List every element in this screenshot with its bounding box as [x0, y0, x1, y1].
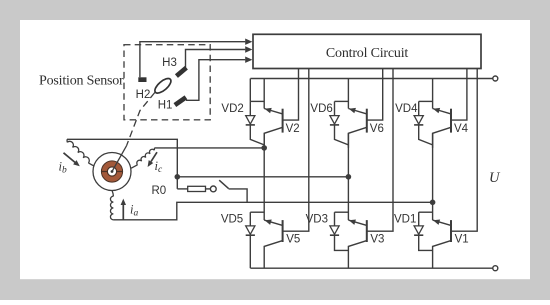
transistor V6 emitter arrow	[349, 108, 356, 113]
position sensor dashed box	[124, 45, 210, 120]
wire phase c from La	[113, 202, 432, 220]
transistor V4 emitter arrow	[433, 108, 440, 113]
svg-text:V6: V6	[370, 123, 384, 135]
motor shaft line	[112, 146, 127, 172]
winding Lb	[66, 139, 68, 142]
wire H3 to control circuit	[186, 50, 246, 68]
winding Lc	[153, 148, 155, 150]
diode VD5	[246, 226, 255, 234]
junction dot phase b	[175, 174, 181, 180]
hall sensor H2	[138, 77, 146, 82]
transistor V6 emitter diagonal	[348, 109, 366, 114]
wire collector feed V2	[263, 79, 265, 109]
diode VD3	[330, 226, 339, 234]
wire H1 to control circuit	[186, 60, 245, 101]
transistor V3 collector diagonal	[348, 220, 366, 225]
transistor V4 emitter diagonal	[433, 109, 451, 114]
transistor V1 collector diagonal	[433, 220, 451, 225]
wire switch to phase c	[229, 189, 248, 202]
hall sensor H3	[175, 66, 188, 78]
wire phase b line	[177, 176, 348, 178]
transistor V5 bar	[282, 220, 284, 242]
transistor V5 base wire	[283, 69, 309, 232]
transistor V5 emitter diagonal	[264, 241, 282, 269]
svg-text:H1: H1	[158, 100, 173, 112]
wire collector feed V4	[432, 79, 434, 109]
svg-text:V2: V2	[286, 123, 300, 135]
transistor V4 collector diagonal	[433, 127, 451, 148]
winding La	[112, 190, 113, 196]
diode VD2	[246, 116, 255, 124]
svg-text:VD6: VD6	[310, 103, 332, 115]
diode VD4 cathode wire	[419, 125, 433, 145]
wire link top VD6	[335, 100, 349, 102]
transistor V1 emitter diagonal	[433, 241, 451, 269]
transistor V1 collector arrow	[433, 219, 440, 224]
arrow into control circuit pin1	[245, 39, 252, 45]
wire to R0	[177, 188, 187, 190]
positive rail	[250, 78, 492, 80]
wire link top VD3	[335, 211, 349, 213]
junction dot phase 3	[430, 200, 436, 206]
phase column 2	[347, 133, 349, 220]
wire link top VD2	[250, 100, 264, 102]
motor rotor ring	[104, 164, 119, 179]
phase column 1	[263, 133, 265, 220]
svg-text:VD1: VD1	[394, 214, 416, 226]
motor stator circle	[93, 153, 131, 191]
svg-text:Control Circuit: Control Circuit	[326, 46, 408, 61]
transistor V2 base wire	[283, 69, 299, 121]
wire rail corner to diode VD2	[249, 79, 251, 102]
current arrow ib	[64, 153, 77, 164]
transistor V1 bar	[450, 220, 452, 242]
wire collector feed V6	[347, 79, 349, 109]
diode VD4 anode wire	[418, 101, 420, 116]
svg-text:H3: H3	[162, 57, 177, 69]
transistor V5 collector diagonal	[264, 220, 282, 225]
transistor V6 collector diagonal	[348, 127, 366, 148]
transistor V6 base wire	[367, 69, 383, 121]
diode VD3 anode wire	[334, 212, 336, 226]
diode VD6 cathode wire	[335, 125, 349, 145]
diode VD6 anode wire	[334, 101, 336, 116]
junction dot phase 2	[346, 174, 352, 180]
transistor V3 emitter diagonal	[348, 241, 366, 269]
junction dot phase 1	[261, 145, 267, 151]
hall sensor H1	[174, 95, 188, 107]
diode VD1 anode wire	[418, 212, 420, 226]
switch blade	[219, 180, 228, 188]
svg-text:H2: H2	[136, 89, 151, 101]
transistor V2 emitter arrow	[265, 108, 272, 113]
transistor V3 base wire	[367, 69, 393, 232]
diode VD5 anode wire	[249, 212, 251, 226]
svg-text:V4: V4	[454, 123, 469, 135]
wire phase b top	[67, 139, 177, 189]
transistor V6 bar	[366, 109, 368, 133]
switch contact circle	[210, 186, 216, 192]
svg-text:Position Sensor: Position Sensor	[39, 73, 124, 88]
svg-text:V5: V5	[286, 234, 300, 246]
motor rotor mid line	[101, 171, 122, 173]
current arrow ia	[122, 204, 124, 220]
control circuit box U0	[253, 34, 481, 68]
terminal top	[493, 76, 498, 81]
resistor R0	[188, 186, 206, 191]
svg-text:VD2: VD2	[221, 103, 243, 115]
diode VD4	[414, 116, 423, 124]
wire link top VD5	[250, 211, 264, 213]
wire link top VD1	[419, 211, 433, 213]
arrow into control circuit pin3	[245, 57, 252, 63]
arrow into control circuit pin2	[245, 46, 252, 52]
transistor V2 bar	[282, 109, 284, 133]
rotor shaft dashed line	[127, 93, 155, 146]
diode VD1 cathode wire	[419, 236, 433, 251]
wire link top VD4	[419, 100, 433, 102]
negative rail	[250, 267, 492, 269]
diode VD2 anode wire	[249, 101, 251, 116]
svg-text:VD5: VD5	[221, 214, 243, 226]
transistor V4 bar	[450, 109, 452, 133]
motor shaft dot	[111, 170, 114, 173]
current arrow ic	[151, 152, 157, 161]
diode VD6	[330, 116, 339, 124]
svg-text:V3: V3	[370, 234, 384, 246]
motor inner hub	[107, 167, 116, 176]
svg-text:VD4: VD4	[395, 103, 418, 115]
transistor V2 emitter diagonal	[264, 109, 282, 114]
motor rotor ring outline	[101, 161, 122, 182]
transistor V4 base wire	[451, 69, 467, 121]
svg-text:R0: R0	[152, 185, 167, 197]
diode VD1	[414, 226, 423, 234]
svg-text:VD3: VD3	[306, 214, 328, 226]
rotor magnet ellipse	[153, 76, 174, 96]
phase column 3	[432, 133, 434, 220]
transistor V3 bar	[366, 220, 368, 242]
wire R0 to switch	[206, 188, 211, 190]
wire H2 to control circuit	[140, 42, 245, 78]
diode VD3 cathode wire	[335, 236, 349, 251]
transistor V5 collector arrow	[265, 219, 272, 224]
transistor V3 collector arrow	[349, 219, 356, 224]
wire phase a line	[154, 147, 264, 149]
terminal bottom	[493, 266, 498, 271]
transistor V2 collector diagonal	[264, 127, 282, 148]
transistor V1 base wire	[451, 69, 477, 232]
svg-text:V1: V1	[455, 234, 469, 246]
diode VD2 cathode wire	[250, 125, 264, 145]
diode VD5 cathode wire	[249, 236, 251, 269]
svg-text:U: U	[489, 170, 501, 186]
